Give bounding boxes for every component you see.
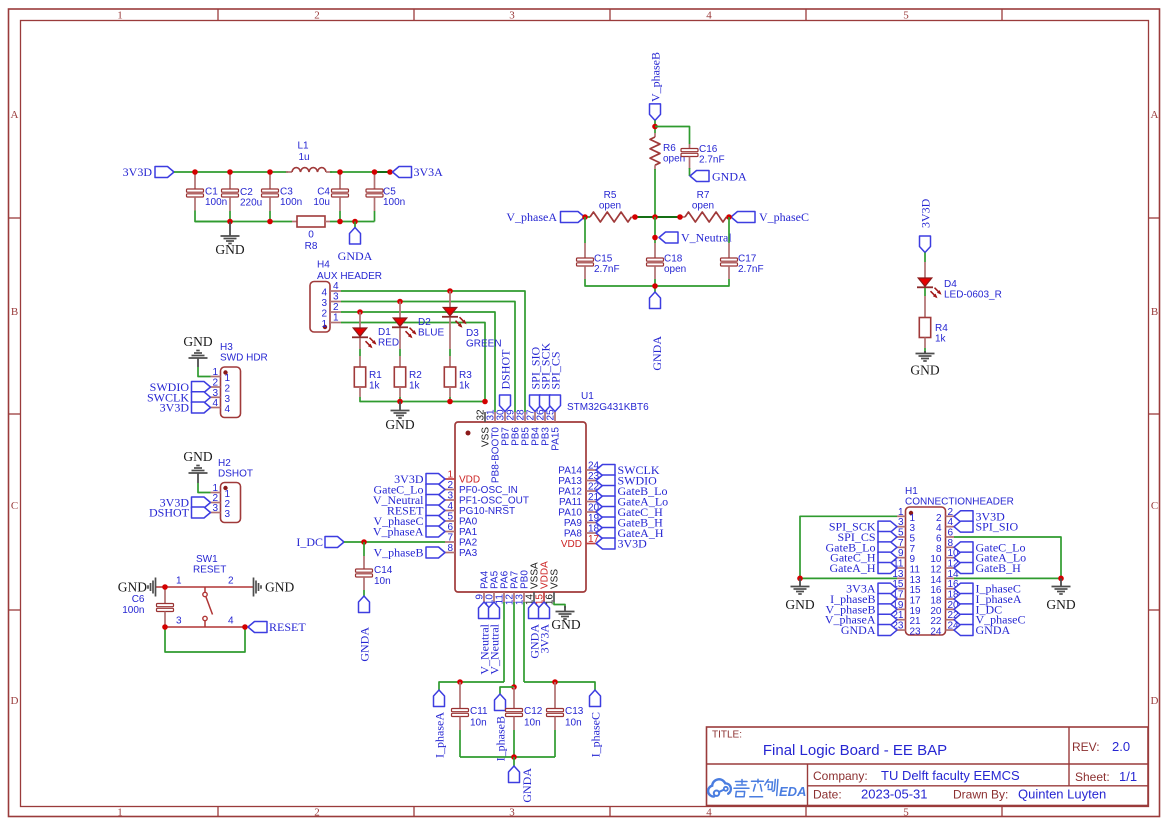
svg-text:2: 2 [447,480,453,491]
svg-text:3V3A: 3V3A [538,624,552,654]
net flag 3V3D (D4) [919,198,933,252]
net flag V_Neutral (U1.3) [373,493,445,507]
svg-text:10n: 10n [374,576,391,587]
H1 pin 9 [897,548,916,565]
net flag V_phaseC [731,210,809,224]
net flag I_phaseA [433,690,447,758]
node V_phaseB junction [652,124,658,130]
wire [729,216,731,218]
svg-text:PF1-OSC_OUT: PF1-OSC_OUT [459,496,529,507]
net flag GNDA (H1.23) [841,623,897,637]
svg-text:V_phaseB: V_phaseB [374,546,424,560]
svg-text:V_phaseB: V_phaseB [649,52,663,102]
svg-text:1/1: 1/1 [1119,769,1137,784]
net flag I_DC [296,535,344,549]
frame column labels [117,10,909,819]
H1 pin 20 [930,600,959,617]
svg-text:GateB_H: GateB_H [976,561,1022,575]
H1 pin 14 [930,569,959,586]
U1 pin 4 (PG10-NRST) [445,501,515,517]
svg-text:GREEN: GREEN [466,339,502,350]
net flag I_DC (H1.20) [954,602,1002,616]
resistor R3 [444,356,472,397]
LED D4 [917,262,1002,301]
title text [712,730,1137,802]
wire [360,397,400,402]
svg-text:220u: 220u [240,198,262,209]
svg-text:C2: C2 [240,187,253,198]
net flag V_Neutral [659,231,732,245]
net flag SPI_SCK (H1.3) [829,520,897,534]
svg-text:R7: R7 [697,190,710,201]
capacitor C12 [506,687,543,730]
svg-text:GNDA: GNDA [841,623,876,637]
U1 pin 17 (VDD) [561,534,600,550]
wire (left rail) [439,682,504,690]
svg-text:C: C [1151,500,1158,512]
svg-text:V_phaseA: V_phaseA [373,525,424,539]
U1 pin 24 (PA14) [558,461,599,477]
svg-text:6: 6 [447,522,453,533]
resistor R4 [919,296,948,348]
net flag RESET (U1.4) [387,504,445,518]
svg-text:B: B [11,306,18,318]
svg-text:3: 3 [333,292,339,303]
svg-text:GND: GND [215,242,244,257]
junction node [361,539,367,545]
ground GND (H2) [183,449,212,483]
U1 pin 21 (PA11) [559,492,600,508]
svg-text:V_phaseA: V_phaseA [506,210,557,224]
net flag GNDA (C14) [358,596,372,662]
svg-text:C5: C5 [383,187,396,198]
wire [359,338,361,349]
resistor R6 [650,133,685,170]
junction node [1058,576,1064,582]
ground GND (H1 left) [785,578,814,612]
svg-text:3: 3 [212,503,218,514]
svg-text:D3: D3 [466,328,479,339]
U1 pin 3 (PF1-OSC_OUT) [445,491,529,507]
ground GND (D4) [910,351,939,378]
U1 pin 32 (VSS) [476,409,492,447]
svg-text:3V3D: 3V3D [618,537,648,551]
svg-text:3: 3 [447,491,453,502]
connector H1 CONNECTIONHEADER [905,486,1014,635]
U1 pin 12 (PA7) [505,570,521,605]
svg-text:1: 1 [176,576,182,587]
wire [198,367,211,377]
wire U1.11 down [503,602,505,682]
U1 pin 30 (PB7) [496,409,512,446]
U1 pin 15 (VDDA) [535,561,551,605]
net flag I_phaseB [494,694,508,761]
svg-text:SPI_CS: SPI_CS [549,351,563,389]
svg-text:2: 2 [228,576,234,587]
connector H4 AUX HEADER [310,260,382,333]
svg-text:GNDA: GNDA [338,249,373,263]
svg-text:C17: C17 [738,254,757,265]
ground GND (H3) [183,334,212,367]
capacitor C13 [547,682,584,730]
svg-text:A: A [1151,109,1159,121]
svg-text:100n: 100n [205,197,227,208]
wire I_DC to U1.7 [344,541,445,543]
resistor R5 [585,190,635,222]
H1 pin 4 [936,517,954,534]
H1 pin 17 [892,590,921,607]
svg-text:I_phaseB: I_phaseB [494,716,508,761]
svg-text:1k: 1k [935,334,947,345]
net flag GNDA (H1.24) [954,623,1010,637]
wire [330,171,375,173]
svg-text:3: 3 [509,807,515,819]
svg-text:4: 4 [333,281,339,292]
svg-text:GND: GND [1046,597,1075,612]
svg-text:VDD: VDD [459,475,480,486]
wire [195,211,230,222]
svg-text:DSHOT: DSHOT [149,506,190,520]
U1 pin 26 (PB3) [536,409,552,446]
capacitor C18 [647,243,687,279]
svg-text:24: 24 [930,627,942,638]
svg-text:R2: R2 [409,370,422,381]
svg-text:PA13: PA13 [558,476,582,487]
LED D3 GREEN [442,291,502,350]
JLC EDA logo [708,779,806,799]
net flag SPI_SIO (H1.4) [954,520,1019,534]
net flag SPI_SIO (U1.27) [529,346,543,411]
net flag GateB_Lo (U1.22) [596,484,668,498]
svg-text:3V3A: 3V3A [414,165,444,179]
svg-text:R6: R6 [663,143,676,154]
svg-text:100n: 100n [280,197,302,208]
net flag 3V3D (H3) [160,401,211,415]
svg-text:PA8: PA8 [564,529,583,540]
LED D2 BLUE [392,302,444,339]
wire to I_phaseB [500,687,514,694]
svg-text:1k: 1k [369,381,381,392]
wire (overlap) [375,171,392,173]
net flag SWCLK [147,390,211,404]
svg-text:5: 5 [903,10,909,22]
svg-text:7: 7 [910,544,916,555]
svg-text:1: 1 [212,367,218,378]
U1 pin 1 (VDD) [445,470,480,486]
net flag V_phaseB [649,52,663,120]
svg-text:GNDA: GNDA [976,623,1011,637]
net flag DSHOT (H2) [149,506,211,520]
H1 pin 12 [930,559,959,576]
svg-text:RED: RED [378,338,399,349]
H1 pin 16 [930,579,959,596]
H1 pin 3 [897,517,916,534]
svg-text:PA9: PA9 [564,518,583,529]
svg-text:1k: 1k [409,381,421,392]
net flag I_phaseC [589,690,603,757]
svg-text:PA14: PA14 [558,466,582,477]
svg-text:GND: GND [183,449,212,464]
svg-text:Sheet:: Sheet: [1075,770,1110,784]
svg-text:PG10-NRST: PG10-NRST [459,506,515,517]
svg-text:8: 8 [936,544,942,555]
svg-text:1: 1 [321,319,327,330]
net flag 3V3D (U1.17) [596,537,647,551]
U1 pin 11 (PA6) [495,570,511,604]
U1 pin 16 (VSS) [545,569,561,605]
svg-text:R8: R8 [305,241,318,252]
svg-text:2: 2 [333,302,339,313]
net flag GNDA (phase) [650,292,665,371]
svg-text:C14: C14 [374,565,393,576]
net flag GateC_Lo (H1.8) [954,540,1026,554]
node V_Neutral junction [652,235,658,241]
svg-text:SWD HDR: SWD HDR [220,353,268,364]
capacitor C17 [721,217,764,279]
U1 pin 27 (PB4) [526,409,542,446]
svg-text:7: 7 [447,533,453,544]
ground GND (SW1 left) [118,578,156,597]
svg-text:B: B [1151,306,1158,318]
svg-text:3: 3 [225,509,231,520]
svg-text:GND: GND [551,617,580,632]
svg-text:R5: R5 [604,190,617,201]
U1 pin 2 (PF0-OSC_IN) [445,480,518,496]
junction node [652,283,658,289]
svg-text:GNDA: GNDA [712,170,747,184]
capacitor C15 [577,217,620,279]
svg-text:H2: H2 [218,458,231,469]
svg-text:D2: D2 [418,317,431,328]
wire [374,211,376,222]
svg-text:C16: C16 [699,144,718,155]
wire [554,730,556,757]
svg-text:L1: L1 [297,141,309,152]
connector H2 DSHOT [211,458,254,523]
U1 pin 20 (PA10) [558,503,599,519]
ground GND (SW1 right) [254,578,295,597]
svg-text:PA12: PA12 [558,487,582,498]
capacitor C4 [313,172,348,211]
svg-text:15: 15 [910,585,922,596]
net flag V_phaseA (U1.6) [373,525,445,539]
svg-text:4: 4 [706,10,712,22]
wire H4.3 to PB6 [341,302,515,413]
junction node [797,576,803,582]
net flag 3V3D (H2) [160,496,211,510]
U1 pin 25 (PA15) [546,409,562,451]
H1 pin 18 [930,590,959,607]
svg-text:U1: U1 [581,391,594,402]
net flag GNDA (U1.14) [528,602,542,659]
svg-text:PA1: PA1 [459,527,478,538]
svg-text:Date:: Date: [813,788,842,802]
capacitor C6 [122,587,173,627]
svg-text:5: 5 [903,807,909,819]
svg-text:2.0: 2.0 [1112,739,1130,754]
wire [689,168,691,176]
wire H1.14 to GND [954,577,1061,579]
svg-text:3V3D: 3V3D [123,165,153,179]
svg-text:C1: C1 [205,187,218,198]
svg-text:C4: C4 [317,187,330,198]
svg-text:VSS: VSS [550,569,561,589]
svg-text:Final Logic Board - EE BAP: Final Logic Board - EE BAP [763,742,947,759]
junction nodes on LED gnd rail [397,399,488,405]
svg-text:3: 3 [321,298,327,309]
svg-text:SW1: SW1 [196,554,218,565]
ground GND (LED rail) [385,402,414,433]
net flag 3V3D (U1.1) [394,472,445,486]
svg-text:10n: 10n [565,718,582,729]
svg-text:GND: GND [118,580,147,595]
net flag GNDA (filter) [338,222,373,264]
wire H4.2 to PB8 [341,312,495,412]
inductor L1 [286,141,332,173]
svg-text:H4: H4 [317,260,330,271]
wire to C16 [655,127,690,145]
U1 pin 19 (PA9) [564,513,600,529]
wire [924,348,926,353]
svg-text:Quinten Luyten: Quinten Luyten [1018,787,1106,802]
svg-text:1: 1 [117,10,123,22]
net flag V_phaseB (U1.8) [374,546,446,560]
net flag 3V3D (H1.2) [954,509,1005,523]
svg-text:GND: GND [385,417,414,432]
svg-text:2: 2 [321,309,327,320]
svg-text:I_DC: I_DC [296,535,323,549]
svg-text:3: 3 [176,616,182,627]
H1 pin 1 [897,507,916,524]
svg-text:10n: 10n [524,718,541,729]
svg-text:18: 18 [930,596,942,607]
svg-text:TU Delft faculty EEMCS: TU Delft faculty EEMCS [881,768,1020,783]
svg-text:H3: H3 [220,342,233,353]
svg-text:Company:: Company: [813,769,868,783]
svg-text:4: 4 [225,404,231,415]
svg-text:9: 9 [898,548,904,559]
wire H4.1 to GND rail [341,323,485,402]
svg-text:100n: 100n [383,197,405,208]
svg-text:open: open [692,201,714,212]
junction nodes on phase rail [582,214,732,220]
svg-text:C18: C18 [664,254,683,265]
wire (cap gnd rail) [460,756,555,758]
svg-text:9: 9 [910,554,916,565]
net flag V_phaseC (U1.5) [374,514,446,528]
net flag GateA_H (U1.18) [596,526,664,540]
svg-text:1: 1 [447,470,453,481]
svg-text:PA3: PA3 [459,548,478,559]
net flag I_phaseB (H1.17) [830,592,897,606]
wire H1.13 to GND [800,577,897,579]
wire [513,730,515,757]
svg-text:4: 4 [321,288,327,299]
capacitor C14 [356,556,393,590]
U1 pin 29 (PB6) [506,409,522,446]
junction node [511,754,517,760]
svg-text:7: 7 [898,538,904,549]
svg-text:CONNECTIONHEADER: CONNECTIONHEADER [905,497,1014,508]
junction nodes on H4 wires [357,288,453,315]
H1 pin 24 [930,621,959,638]
net flag 3V3D [123,165,174,179]
net flag V_phaseC (H1.22) [954,613,1026,627]
capacitor C16 [681,144,725,169]
svg-text:EDA: EDA [779,784,806,799]
svg-text:PA2: PA2 [459,538,478,549]
svg-text:C12: C12 [524,706,543,717]
svg-text:8: 8 [447,543,453,554]
svg-text:AUX HEADER: AUX HEADER [317,271,382,282]
svg-text:GND: GND [265,580,294,595]
net flag V_Neutral (U1.9) [478,602,492,675]
wire [229,211,231,222]
wire [554,602,565,608]
svg-text:1: 1 [333,313,339,324]
svg-text:1k: 1k [459,381,471,392]
net flag GateB_H (U1.19) [596,516,663,530]
svg-text:3: 3 [509,10,515,22]
net flag I_phaseC (H1.16) [954,582,1021,596]
junction nodes on bottom rail [227,219,358,225]
svg-text:17: 17 [910,596,922,607]
svg-text:10u: 10u [313,197,330,208]
U1 pin 31 (PB8-BOOT0) [486,409,502,483]
svg-text:3V3D: 3V3D [160,401,190,415]
ground GND (U1.16) [551,606,580,632]
H1 pin 11 [893,559,920,576]
svg-text:GNDA: GNDA [520,768,534,803]
svg-text:2.7nF: 2.7nF [738,264,764,275]
U1 pin 14 (VSSA) [525,562,541,605]
wire [924,253,926,263]
svg-text:A: A [11,109,19,121]
net flag SPI_CS (H1.5) [837,530,897,544]
svg-text:BLUE: BLUE [418,328,444,339]
U1 pin 9 (PA4) [475,570,491,602]
svg-text:2023-05-31: 2023-05-31 [861,787,928,802]
net flag GateA_Lo (U1.21) [596,495,668,509]
net flag 3V3A (U1.15) [538,602,552,653]
net flag SWDIO [150,380,211,394]
svg-text:REV:: REV: [1072,740,1100,754]
net flag V_phaseB (H1.19) [826,602,898,616]
svg-text:GND: GND [785,597,814,612]
svg-text:D: D [11,695,19,707]
svg-text:C3: C3 [280,187,293,198]
net flag GateC_Lo (U1.2) [374,483,446,497]
U1 pin 22 (PA12) [558,482,599,498]
wire U1.12 down [513,602,515,687]
net flag DSHOT (U1.30) [499,349,513,412]
net flag I_phaseA (H1.18) [954,592,1022,606]
connector H3 SWD HDR [211,342,268,418]
LED D1 RED [352,312,399,349]
svg-text:PA0: PA0 [459,517,478,528]
net flag SWDIO (U1.23) [596,474,657,488]
title block [707,727,1149,806]
net flag 3V3A (H1.15) [846,582,897,596]
svg-text:LED-0603_R: LED-0603_R [944,290,1002,301]
net flag GateA_H (H1.11) [830,561,897,575]
frame row labels [11,109,1159,707]
ground GND (filter) [215,222,244,257]
junction nodes on 3V3D rail [192,169,393,175]
net flag GateA_Lo (H1.10) [954,551,1026,565]
svg-text:D1: D1 [378,327,391,338]
svg-text:I_phaseA: I_phaseA [433,712,447,758]
